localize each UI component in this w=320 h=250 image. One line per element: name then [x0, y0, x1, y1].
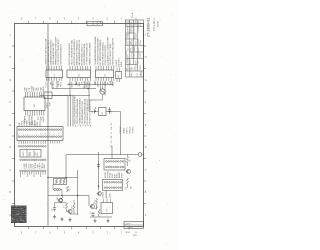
svg-text:717XK: 717XK [126, 58, 128, 64]
svg-text:RV A: RV A [131, 12, 134, 18]
svg-text:RKDXK: RKDXK [138, 38, 140, 45]
resistor R8 [126, 178, 128, 184]
svg-text:17: 17 [54, 133, 56, 135]
svg-text:2800: 2800 [141, 70, 143, 76]
wire branch down from node [65, 155, 67, 178]
svg-text:REH: REH [136, 40, 138, 45]
reference strip on top border [87, 20, 103, 26]
title block drawing number text [141, 70, 143, 76]
svg-text:TNWRT785TP3CW1W: TNWRT785TP3CW1W [89, 43, 91, 66]
svg-text:K6P2: K6P2 [140, 53, 142, 58]
svg-text:ENGHLASXELURXGDUYH: ENGHLASXELURXGDUYH [112, 38, 115, 66]
svg-text:C7: C7 [63, 206, 65, 208]
wire oscillator output [97, 99, 103, 101]
svg-text:F46961KRH1RA11KF: F46961KRH1RA11KF [60, 43, 63, 66]
svg-text:1: 1 [19, 134, 21, 135]
svg-text:9UMLX: 9UMLX [132, 44, 134, 51]
wire to off-page connector [66, 154, 138, 156]
svg-text:G: G [145, 80, 147, 82]
crystal oscillator Y1 [100, 86, 105, 100]
svg-text:WM9: WM9 [130, 41, 132, 45]
wire vertical drops from ICs [52, 81, 112, 96]
transistor Q4 [126, 169, 131, 173]
wire IC U6 pins to connector J1 [30, 121, 40, 127]
svg-text:H9P: H9P [37, 121, 39, 126]
net labels below IC U2 [69, 81, 91, 88]
svg-text:11: 11 [41, 133, 43, 135]
wire left column bottom right [98, 152, 100, 190]
svg-text:78C4: 78C4 [61, 81, 63, 87]
revision sticker block (dark) [11, 206, 27, 224]
svg-text:E8N: E8N [133, 235, 137, 237]
pin wires into IC U3 top [96, 66, 114, 70]
wire K cluster links [53, 170, 78, 215]
net labels above IC U4 [116, 57, 123, 67]
junction dots node row [47, 177, 66, 178]
wire M1 links [55, 203, 68, 212]
resistor R7 [126, 157, 131, 163]
svg-text:2RF: 2RF [130, 67, 132, 70]
svg-text:8GWL: 8GWL [138, 21, 140, 26]
net labels below IC U3 [95, 80, 115, 87]
resistor R2 [66, 186, 70, 192]
net labels right components [126, 186, 133, 190]
svg-text:552: 552 [126, 187, 128, 190]
IC U6 [24, 97, 45, 111]
wire lower node row [48, 195, 89, 197]
capacitor C2 [52, 206, 57, 212]
title block text entries [125, 20, 142, 77]
svg-text:W34: W34 [130, 48, 132, 52]
svg-text:R2: R2 [69, 189, 71, 192]
connector J1 pin circles row 1 [18, 129, 61, 131]
capacitor C1 [108, 107, 113, 114]
wire U5A output [52, 95, 68, 97]
svg-text:67G: 67G [140, 22, 142, 26]
resistor R6 [98, 210, 100, 216]
svg-text:CLN7F: CLN7F [125, 223, 132, 225]
IC U2 [67, 70, 91, 78]
transistor Q3 [90, 204, 95, 208]
svg-text:K7KL1: K7KL1 [53, 81, 55, 88]
IC U8 [101, 203, 113, 214]
terminal block TB1 [20, 150, 41, 158]
svg-text:LLRP: LLRP [43, 116, 45, 122]
wire vertical to lower section [120, 112, 122, 155]
svg-text:CCL: CCL [138, 60, 140, 64]
svg-text:W770: W770 [71, 81, 73, 87]
svg-text:7: 7 [32, 134, 34, 135]
junction dot bottom right [98, 185, 100, 187]
net labels above IC U1 [44, 36, 62, 66]
svg-text:R1: R1 [92, 111, 94, 114]
svg-text:CAM: CAM [108, 193, 111, 198]
svg-text:3SU5: 3SU5 [47, 102, 49, 108]
svg-text:F0B9: F0B9 [121, 61, 123, 67]
connector J1 pin circles row 2 [18, 136, 61, 138]
svg-text:8U42: 8U42 [44, 164, 46, 169]
svg-text:C826Y: C826Y [126, 20, 128, 26]
transistor Q5 [97, 192, 102, 196]
wire data bus horizontal [67, 84, 114, 86]
svg-text:3: 3 [23, 134, 25, 135]
svg-text:7EM8: 7EM8 [125, 232, 130, 234]
net labels above IC U2 [68, 38, 91, 65]
wire address bus horizontal [52, 88, 96, 90]
svg-text:4NFH: 4NFH [134, 20, 136, 25]
wire from bus to oscillator [89, 85, 97, 101]
title block outline [126, 20, 144, 77]
svg-text:M30R: M30R [158, 21, 160, 27]
svg-text:0K9: 0K9 [37, 153, 39, 157]
svg-text:U7: U7 [102, 112, 104, 115]
IC U7 [99, 108, 107, 116]
net name labels column mid right [110, 122, 113, 147]
connector J5 outline [103, 180, 123, 191]
svg-text:2K2: 2K2 [94, 201, 96, 204]
svg-text:F3: F3 [111, 140, 113, 142]
value labels M1 [57, 196, 74, 209]
rev mark above title block [131, 12, 134, 18]
svg-text:51G2: 51G2 [45, 81, 47, 87]
svg-text:NAU: NAU [130, 72, 133, 77]
svg-text:GAY8: GAY8 [57, 80, 60, 86]
title block inner dividers [126, 20, 144, 77]
ground symbol M2 b [106, 219, 109, 223]
net labels above IC U3 [94, 36, 115, 65]
connector J4 outline [104, 159, 125, 171]
pin stubs IC U8 [104, 199, 111, 203]
connector J1 pin numbers [19, 133, 61, 135]
wire M2 links [95, 205, 99, 218]
resistor R9 [73, 204, 75, 210]
wire M2 feed [88, 196, 90, 206]
wire bus verticals to connector [68, 96, 73, 127]
svg-text:GFTXTR5N29GNMLA2: GFTXTR5N29GNMLA2 [102, 41, 105, 65]
wire R9 links [70, 200, 78, 214]
value labels M2 [90, 201, 99, 214]
wire drop to connector J4 [111, 146, 113, 159]
svg-text:U4: U4 [118, 75, 120, 78]
svg-text:27-2800-01: 27-2800-01 [147, 18, 151, 37]
capacitor C3 [97, 163, 100, 169]
svg-text:HSDLL: HSDLL [130, 127, 132, 134]
net labels above IC U8 [102, 189, 111, 198]
svg-text:R7: R7 [130, 160, 132, 163]
svg-text:XGE: XGE [97, 20, 99, 25]
resistor R1 [92, 108, 96, 114]
pin wires IC U4 [117, 68, 120, 83]
pin wires from IC U2 bottom [70, 78, 90, 81]
wire U7 row [89, 100, 121, 112]
junction dots lower node row [61, 195, 78, 196]
left border zone ticks and letters [10, 35, 15, 217]
wire M2 bottom rail [90, 216, 112, 218]
svg-text:8W: 8W [111, 135, 113, 138]
net labels above connector J1 left [18, 119, 39, 125]
IC U1 [46, 70, 63, 78]
connector J3 pin circles row 2 [20, 170, 46, 172]
svg-text:19: 19 [58, 133, 60, 135]
buffer gate U5A [44, 92, 52, 99]
svg-text:LW: LW [131, 186, 133, 189]
connector J3 mid labels [24, 162, 46, 168]
net labels below IC U6 [23, 114, 44, 125]
svg-text:MBE: MBE [93, 20, 95, 25]
sheet note (rotated) [153, 18, 160, 31]
net labels between connectors [105, 171, 124, 178]
svg-text:5: 5 [28, 134, 30, 135]
bottom border zone numbers [21, 233, 138, 235]
svg-text:6YHSRP: 6YHSRP [138, 26, 140, 33]
connector J4 pin circles row 2 [106, 166, 124, 168]
resistor R4 [65, 203, 67, 209]
pin wires IC U6 bottom [26, 111, 44, 116]
svg-text:93K: 93K [50, 102, 52, 106]
ground symbol M1 c [68, 218, 71, 222]
svg-text:N144T: N144T [123, 127, 125, 134]
pin wires from IC U3 bottom [96, 78, 114, 81]
wire U5A input [40, 95, 44, 97]
svg-text:G8HW0N: G8HW0N [126, 50, 128, 58]
resistor R5 [95, 199, 97, 205]
svg-text:X9G9NDACP9H46DNCNRX: X9G9NDACP9H46DNCNRX [96, 37, 99, 66]
svg-text:G: G [10, 80, 12, 82]
svg-text:51: 51 [111, 132, 113, 134]
svg-text:81PD: 81PD [89, 81, 91, 87]
stubs below connector J1 right [51, 141, 60, 144]
wire control bus horizontal [44, 95, 90, 97]
svg-text:YMPH: YMPH [140, 64, 142, 70]
svg-text:GS5GY: GS5GY [126, 32, 128, 39]
note text mid right [120, 126, 134, 133]
svg-text:3YB: 3YB [134, 67, 136, 70]
junction dots on bus [69, 84, 88, 96]
pin wires into IC U1 top [47, 66, 62, 70]
net labels bus to connector J1 [74, 96, 91, 126]
off-page connector E1 [138, 153, 143, 157]
connector J1 outline [17, 127, 63, 141]
svg-text:— YK4: — YK4 [127, 227, 133, 229]
drawing border frame [15, 24, 144, 227]
svg-text:CF2KM: CF2KM [120, 126, 122, 133]
scan noise specks [3, 4, 175, 245]
ground symbol M1 b [60, 217, 63, 221]
connector J5 pin circles row 1 [104, 182, 122, 184]
connector J3 pin circles row 1 [20, 159, 46, 161]
svg-text:2W7W: 2W7W [132, 52, 134, 58]
svg-text:FET0297CP79NKBFHG: FET0297CP79NKBFHG [89, 100, 91, 124]
svg-text:MWS: MWS [23, 151, 25, 157]
svg-text:J: J [10, 35, 11, 37]
net labels below IC U1 [45, 80, 62, 88]
svg-text:UM8S: UM8S [97, 81, 99, 88]
document number (rotated, outside right border) [147, 18, 151, 37]
svg-text:C2: C2 [52, 209, 54, 212]
bottom border zone ticks [29, 227, 129, 230]
svg-text:F8RK: F8RK [27, 120, 29, 126]
ground symbol M2 a [93, 219, 96, 223]
reference labels right of U6 [47, 102, 52, 108]
connector J4 pin circles row 1 [106, 161, 124, 163]
inductor L1 [53, 188, 62, 190]
IC U3 [96, 70, 114, 78]
svg-text:6UD: 6UD [113, 81, 115, 86]
pin wires from IC U1 bottom [47, 78, 62, 81]
pin wires into IC U2 top [70, 66, 90, 70]
junction dot U7 [94, 111, 110, 112]
svg-text:13: 13 [45, 133, 47, 135]
svg-text:P9CN: P9CN [134, 27, 136, 32]
svg-text:CM2W: CM2W [102, 192, 104, 198]
svg-text:KNT5: KNT5 [121, 173, 123, 178]
net labels above IC U6 [24, 85, 44, 92]
svg-text:TL7SG: TL7SG [133, 127, 135, 134]
connector J3 lower stubs [21, 172, 46, 177]
capacitor C4 [91, 212, 94, 217]
ground symbol M1 a [53, 215, 56, 219]
svg-text:WE51: WE51 [43, 85, 45, 92]
svg-text:SHS: SHS [130, 22, 132, 26]
IC U4 [116, 72, 122, 79]
reference label connector J3 [29, 151, 37, 156]
wire vertical bus line [47, 24, 49, 226]
wire right components [127, 155, 129, 189]
resistor R3 [61, 197, 63, 203]
top border zone ticks [29, 21, 129, 24]
filter module FL1 [54, 179, 67, 185]
connector J5 pin circles row 2 [104, 187, 122, 189]
transistor Q1 [58, 198, 63, 202]
connector J2 pin circles [18, 146, 46, 148]
connector J1 lower pin stubs [19, 141, 45, 144]
svg-text:YY7W5TT5XD05RYAT: YY7W5TT5XD05RYAT [86, 42, 89, 65]
svg-text:9: 9 [36, 134, 38, 135]
svg-text:SH 1 OF 1: SH 1 OF 1 [153, 18, 156, 31]
right border zone ticks and letters [144, 35, 147, 217]
svg-text:4BS5: 4BS5 [138, 47, 140, 51]
svg-text:15: 15 [50, 133, 52, 135]
transistor Q2 [67, 209, 72, 213]
notes below border [125, 232, 137, 237]
svg-text:CEY: CEY [29, 151, 31, 156]
svg-text:TNDL: TNDL [134, 53, 136, 58]
approval stamp box [124, 222, 144, 229]
svg-text:7U1: 7U1 [137, 73, 139, 77]
wire horizontal node row [48, 177, 78, 179]
svg-text:K9273: K9273 [126, 128, 128, 134]
top border zone numbers [21, 19, 138, 21]
pin wires IC U6 top [26, 92, 44, 97]
